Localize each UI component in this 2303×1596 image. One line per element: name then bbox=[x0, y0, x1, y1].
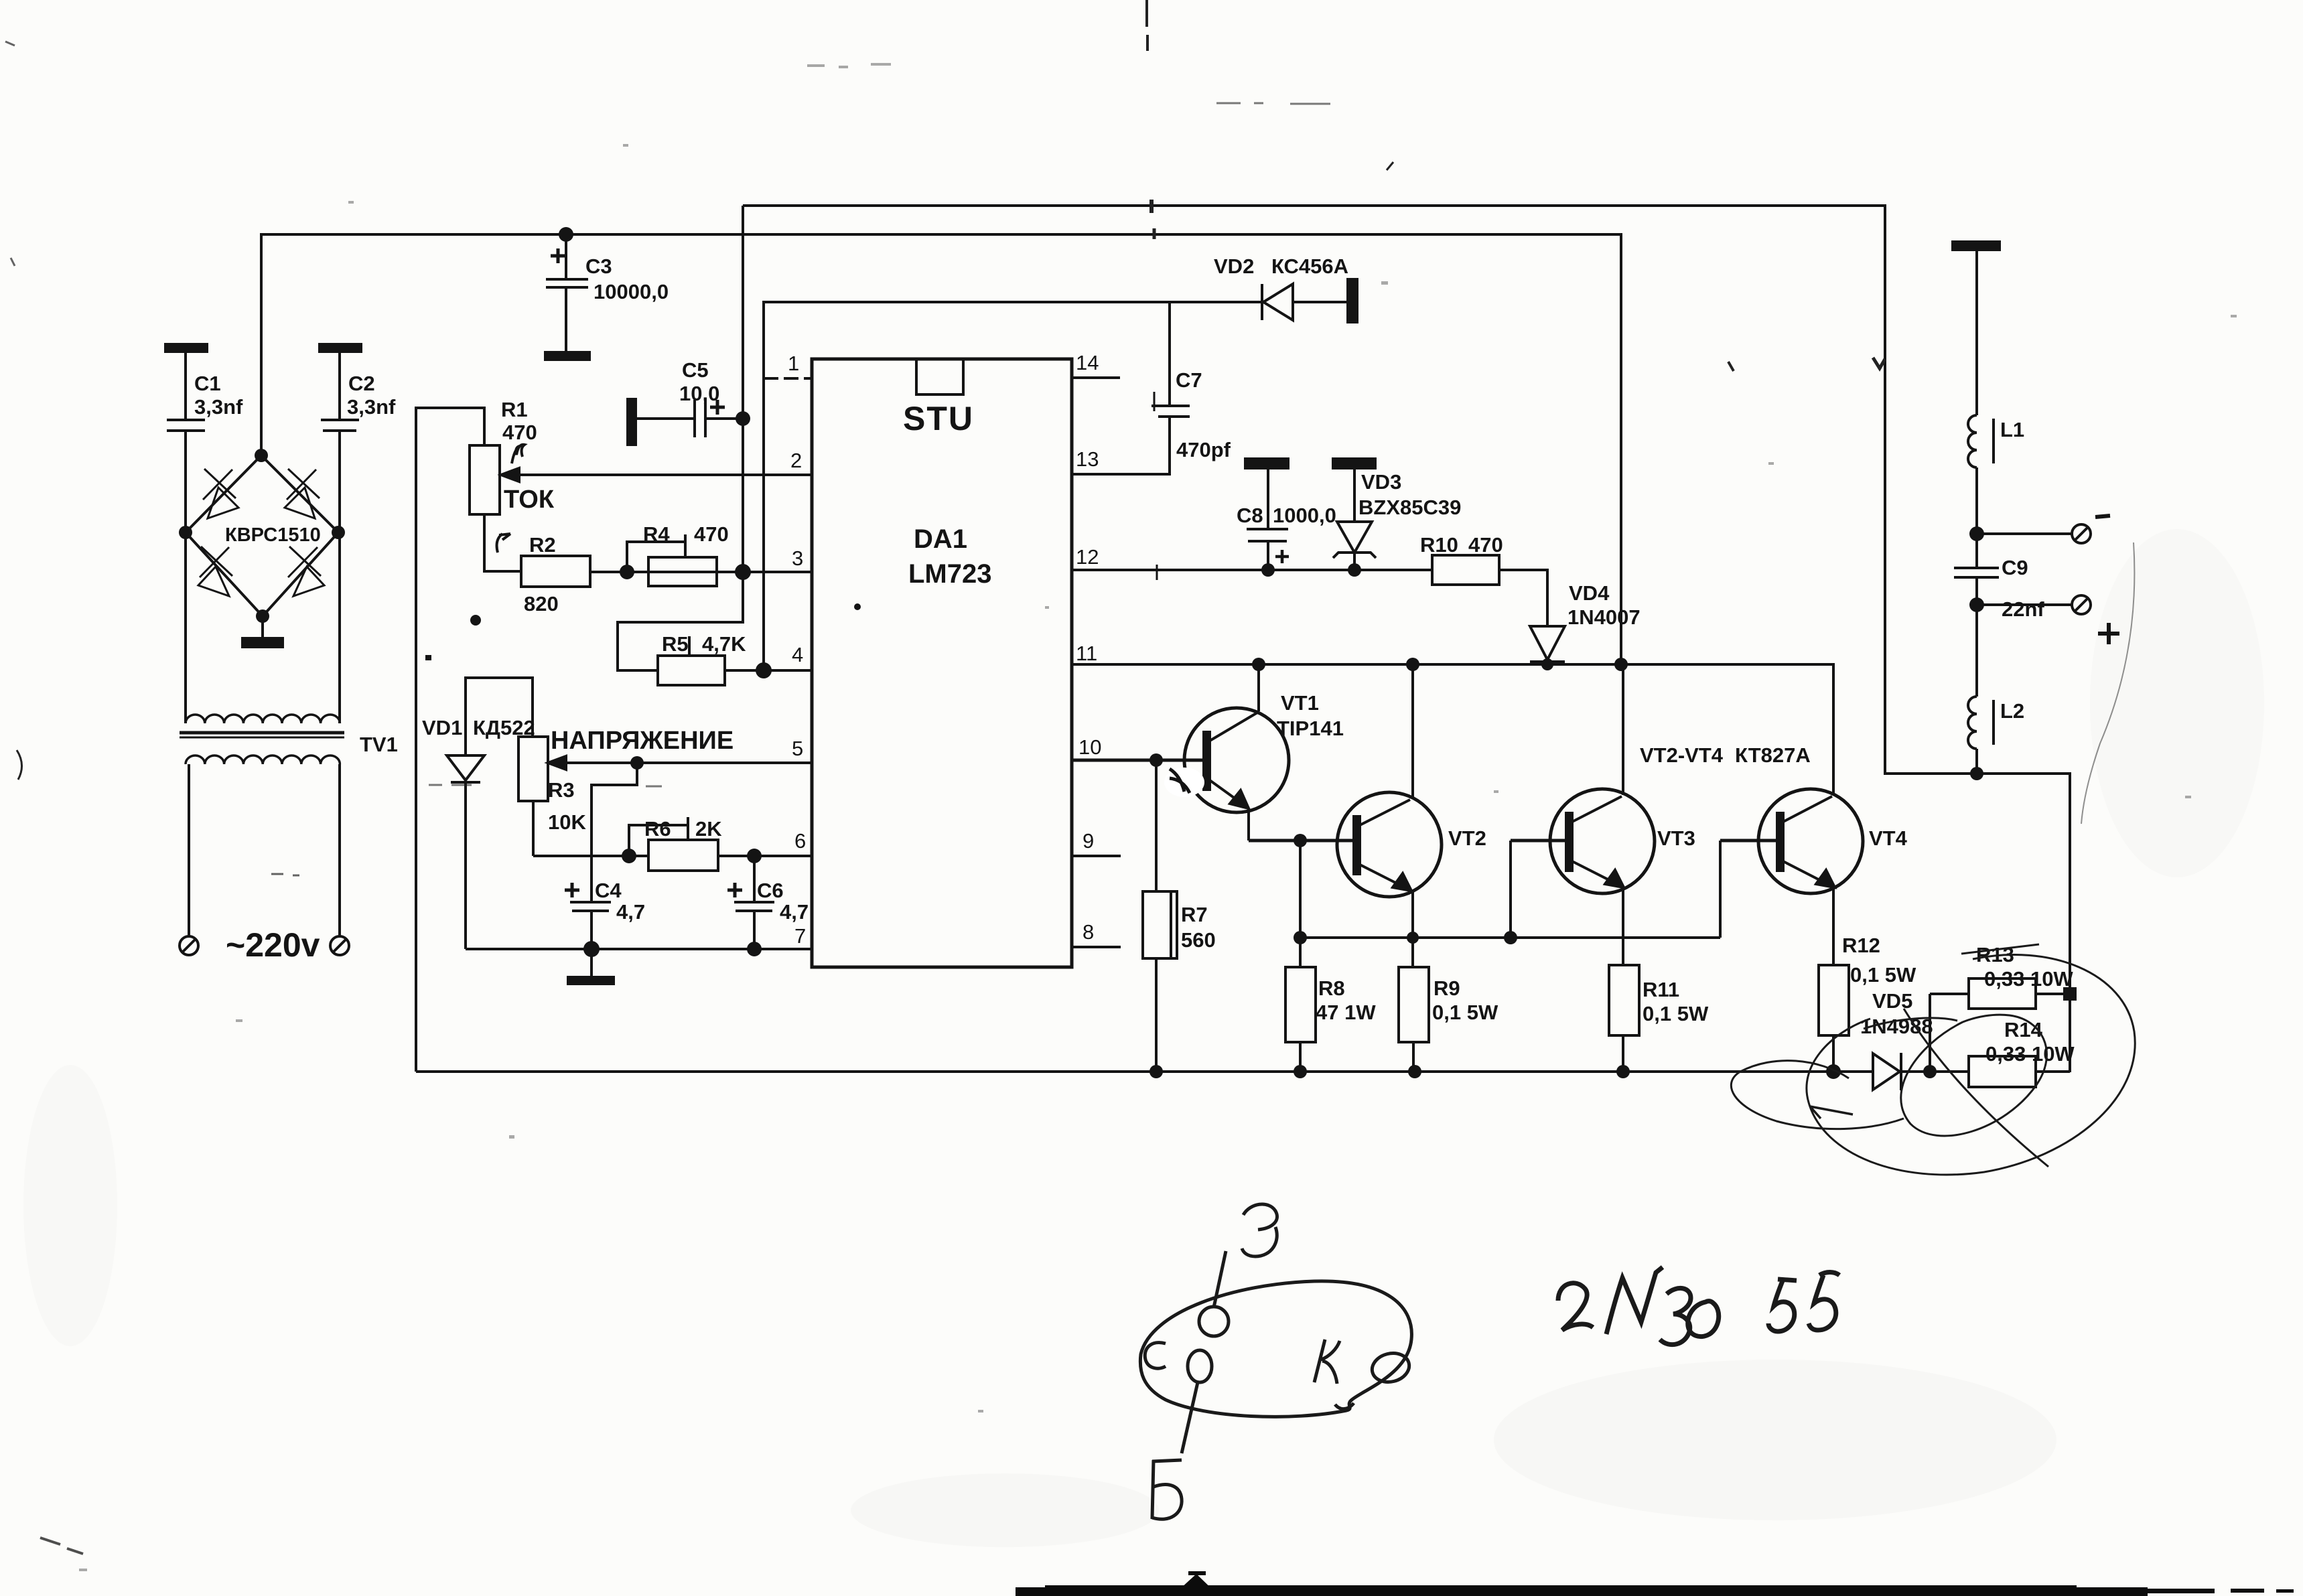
svg-text:C6: C6 bbox=[757, 879, 784, 902]
svg-text:0,1 5W: 0,1 5W bbox=[1850, 963, 1916, 987]
svg-text:VD3: VD3 bbox=[1361, 470, 1401, 494]
wire VD2 cathode to terminal bar bbox=[1293, 301, 1349, 303]
resistor R6 bbox=[644, 817, 722, 871]
wire R5 bypass loop bbox=[618, 572, 743, 670]
resistor R5 bbox=[658, 632, 746, 685]
wire VD1 top U loop to R3 top bbox=[466, 678, 533, 755]
svg-text:R8: R8 bbox=[1318, 976, 1345, 1000]
wire R6 label bracket bbox=[629, 825, 688, 856]
resistor R9 bbox=[1399, 967, 1498, 1072]
svg-text:0,1 5W: 0,1 5W bbox=[1643, 1002, 1709, 1025]
node R6 left bbox=[622, 849, 636, 863]
node R12 / VD5 anode bbox=[1826, 1064, 1841, 1079]
svg-text:НАПРЯЖЕНИЕ: НАПРЯЖЕНИЕ bbox=[551, 727, 734, 755]
wire from terminal to L1 bbox=[1975, 250, 1978, 415]
svg-text:4,7: 4,7 bbox=[616, 900, 645, 924]
svg-text:5: 5 bbox=[792, 737, 803, 760]
svg-text:2: 2 bbox=[790, 449, 802, 472]
svg-text:1N4007: 1N4007 bbox=[1567, 605, 1641, 629]
svg-text:LM723: LM723 bbox=[908, 559, 992, 589]
node pin 4 bbox=[756, 662, 772, 678]
diode VD2 (zener) bbox=[1214, 255, 1357, 322]
svg-text:R9: R9 bbox=[1434, 976, 1460, 1000]
pen loops around R13 R14 VD5 bbox=[1731, 944, 2135, 1175]
inductor L1 column top terminal bbox=[1953, 242, 2000, 250]
svg-text:10,0: 10,0 bbox=[679, 382, 719, 405]
svg-text:R5: R5 bbox=[662, 632, 689, 656]
svg-text:TIP141: TIP141 bbox=[1277, 717, 1344, 740]
wire VD1 cathode down bbox=[464, 782, 467, 949]
resistor R7 bbox=[1143, 760, 1216, 1072]
wire rail B from bridge to VT4 column bbox=[261, 234, 1621, 664]
svg-text:C3: C3 bbox=[585, 255, 612, 278]
wire C6 leads bbox=[753, 856, 756, 901]
op-amp regulator IC DA1 LM723 bbox=[812, 359, 1072, 967]
bridge rectifier KBPC1510 bbox=[186, 455, 338, 616]
svg-text:1: 1 bbox=[788, 352, 799, 375]
node C4 ground bbox=[583, 941, 600, 957]
potentiometer R3 bbox=[518, 737, 586, 834]
wire C4 bottom lead bbox=[590, 911, 593, 949]
svg-text:VD4: VD4 bbox=[1569, 581, 1610, 605]
capacitor C9 bbox=[1954, 556, 2044, 697]
node bridge right bbox=[332, 526, 345, 539]
svg-text:11: 11 bbox=[1076, 642, 1097, 665]
node output plus bbox=[1969, 597, 1984, 612]
node pin 3 bbox=[735, 564, 751, 580]
svg-text:820: 820 bbox=[524, 592, 559, 615]
svg-text:7: 7 bbox=[794, 924, 806, 948]
svg-text:R2: R2 bbox=[529, 533, 556, 557]
svg-text:6: 6 bbox=[794, 829, 806, 853]
wire pin 5 line from R3 wiper bbox=[549, 761, 812, 764]
svg-text:3,3nf: 3,3nf bbox=[194, 395, 243, 419]
handwritten 2N3055 bbox=[1558, 1267, 1839, 1345]
wire pin 4 line bbox=[725, 669, 812, 672]
svg-text:3: 3 bbox=[792, 547, 803, 570]
transformer TV1 bbox=[180, 532, 398, 936]
resistor R10 bbox=[1420, 533, 1503, 585]
svg-text:10K: 10K bbox=[548, 810, 586, 834]
svg-text:10: 10 bbox=[1078, 735, 1101, 759]
wire C4 ground stem bbox=[590, 949, 593, 977]
node bridge top bbox=[255, 449, 268, 462]
svg-text:C2: C2 bbox=[348, 372, 375, 395]
potentiometer R1 bbox=[470, 398, 537, 514]
svg-text:~220v: ~220v bbox=[226, 926, 320, 964]
capacitor C1 bbox=[165, 344, 243, 532]
node output minus bbox=[1969, 526, 1984, 541]
svg-text:КТ827А: КТ827А bbox=[1735, 743, 1811, 767]
handwritten transistor pinout sketch bbox=[1140, 1204, 1412, 1519]
capacitor C7 bbox=[1151, 302, 1231, 461]
svg-text:470: 470 bbox=[1468, 533, 1503, 557]
pin 1 stub bbox=[764, 352, 812, 378]
svg-text:C5: C5 bbox=[682, 358, 709, 382]
capacitor C3 bbox=[546, 234, 669, 352]
svg-text:9: 9 bbox=[1083, 829, 1094, 853]
svg-text:470pf: 470pf bbox=[1176, 438, 1231, 461]
capacitor C6 bbox=[727, 879, 809, 924]
wire R4 label bracket bbox=[627, 542, 685, 572]
node R8 bottom bbox=[1294, 1065, 1307, 1078]
output terminal plus bbox=[1977, 595, 2119, 644]
wire R1 top loop to left border bbox=[416, 408, 484, 1072]
node rail B drop bbox=[1614, 658, 1628, 671]
wire pin 13 line bbox=[1072, 418, 1170, 474]
node C5 / pin3 riser bbox=[736, 411, 750, 426]
node C6 bottom bbox=[747, 942, 762, 956]
node L2 bottom bbox=[1970, 767, 1983, 780]
wire L1 to minus node bbox=[1975, 467, 1978, 567]
node R7 bottom bbox=[1149, 1065, 1163, 1078]
wire pin 3 line bbox=[590, 571, 812, 573]
wire top rail A bbox=[743, 206, 2070, 1072]
svg-text:L1: L1 bbox=[2000, 418, 2024, 441]
node R11 bottom bbox=[1616, 1065, 1630, 1078]
resistor R11 bbox=[1609, 965, 1709, 1072]
svg-text:10000,0: 10000,0 bbox=[594, 280, 669, 303]
pin 9 stub bbox=[1072, 829, 1121, 856]
node R13-R14 left bbox=[1923, 1065, 1937, 1078]
correction white-out at VT1 base bbox=[1164, 768, 1204, 797]
node C6 top bbox=[747, 849, 762, 863]
capacitor C8 bbox=[1237, 459, 1336, 570]
wire R3 bottom to pin6 rail bbox=[532, 801, 535, 856]
svg-text:R12: R12 bbox=[1842, 934, 1880, 957]
wire VT1 emitter to VT2 base bbox=[1249, 839, 1355, 843]
svg-text:0,33 10W: 0,33 10W bbox=[1984, 967, 2073, 991]
bottom scan black bar bbox=[1016, 1571, 2294, 1596]
pen scribble above R1 wiper bbox=[512, 445, 525, 463]
node VT2 emitter cross bbox=[1407, 932, 1419, 944]
node R9 bottom bbox=[1408, 1065, 1421, 1078]
svg-text:R3: R3 bbox=[548, 778, 575, 802]
svg-text:4,7: 4,7 bbox=[780, 900, 809, 924]
node output / R13 right (square junction) bbox=[2063, 987, 2077, 1001]
node R2-R4 bbox=[620, 565, 634, 579]
svg-text:13: 13 bbox=[1076, 447, 1099, 471]
svg-text:R10: R10 bbox=[1420, 533, 1458, 557]
faint scan smudges bbox=[23, 529, 2264, 1547]
svg-text:R6: R6 bbox=[644, 817, 671, 841]
svg-text:22nf: 22nf bbox=[2002, 597, 2044, 621]
svg-text:C4: C4 bbox=[595, 879, 622, 902]
svg-text:VD1: VD1 bbox=[422, 716, 462, 739]
capacitor C4 bbox=[565, 879, 645, 924]
terminal 220v right bbox=[330, 936, 349, 955]
svg-text:47 1W: 47 1W bbox=[1316, 1001, 1376, 1024]
wire pin 7 ground rail bbox=[466, 948, 812, 950]
output terminal minus bbox=[1977, 516, 2110, 543]
wire R5 label tick bbox=[688, 636, 691, 656]
svg-text:C8: C8 bbox=[1237, 504, 1263, 527]
svg-text:VT1: VT1 bbox=[1281, 691, 1319, 715]
svg-text:R11: R11 bbox=[1643, 978, 1679, 1001]
svg-text:VD5: VD5 bbox=[1872, 989, 1912, 1013]
transistor VT1 bbox=[1072, 664, 1344, 841]
node VT2 collector bbox=[1406, 658, 1419, 671]
svg-text:VT3: VT3 bbox=[1657, 826, 1695, 850]
wire pin 6 rail bbox=[533, 855, 648, 857]
svg-text:VT4: VT4 bbox=[1869, 826, 1908, 850]
svg-text:STU: STU bbox=[903, 400, 974, 437]
node VT2 base / R8 bbox=[1294, 834, 1307, 847]
resistor R8 bbox=[1285, 967, 1376, 1072]
diode VD4 bbox=[1499, 570, 1641, 664]
svg-text:R7: R7 bbox=[1181, 903, 1208, 926]
svg-text:1000,0: 1000,0 bbox=[1273, 504, 1336, 527]
wire pin 12 rail bbox=[1072, 565, 1432, 580]
svg-text:0,33 10W: 0,33 10W bbox=[1985, 1042, 2075, 1066]
node VD4 cathode bbox=[1541, 658, 1553, 670]
svg-text:470: 470 bbox=[502, 421, 537, 444]
node C8 bottom bbox=[1261, 563, 1275, 577]
wire L2 to output rail bbox=[1975, 749, 1978, 774]
inductor L2 bbox=[1968, 697, 2024, 749]
wire C4 jog from pin5 node bbox=[591, 763, 637, 901]
wire R2 to R4 bbox=[590, 571, 648, 573]
svg-text:КС456А: КС456А bbox=[1271, 255, 1348, 278]
svg-text:VT2: VT2 bbox=[1448, 826, 1486, 850]
node C3 top on rail B bbox=[559, 227, 573, 242]
diode VD5 on bottom rail bbox=[1860, 989, 1933, 1090]
svg-text:0,1 5W: 0,1 5W bbox=[1432, 1001, 1498, 1024]
transistor VT4 bbox=[1720, 789, 1908, 965]
node pin10 / R7 bbox=[1149, 753, 1163, 767]
svg-text:3,3nf: 3,3nf bbox=[347, 395, 396, 419]
resistor R14 bbox=[1969, 1018, 2075, 1087]
node base bus / R8 bbox=[1294, 931, 1307, 944]
transistor VT3 bbox=[1511, 664, 1695, 965]
svg-text:DA1: DA1 bbox=[914, 524, 967, 554]
svg-text:C7: C7 bbox=[1176, 368, 1202, 392]
diode VD1 bbox=[422, 716, 535, 782]
resistor R12 bbox=[1819, 934, 1916, 1072]
node VD3 bottom bbox=[1348, 563, 1361, 577]
svg-text:R1: R1 bbox=[501, 398, 528, 421]
svg-text:560: 560 bbox=[1181, 928, 1216, 952]
node bridge left bbox=[179, 526, 192, 539]
node pin 5 / C4 tap bbox=[630, 756, 644, 770]
ground below C3 bbox=[545, 352, 589, 360]
svg-text:ТОК: ТОК bbox=[504, 486, 555, 514]
wire vertical from rail A to pin 3 bbox=[742, 206, 744, 572]
wire R1 bottom to R2 bbox=[484, 514, 521, 571]
resistor R2 bbox=[521, 533, 590, 615]
diode VD3 (zener) bbox=[1333, 459, 1461, 570]
wire rail C pin4 riser to VD2 bbox=[764, 302, 1262, 670]
svg-text:C1: C1 bbox=[194, 372, 221, 395]
capacitor C5 bbox=[628, 358, 743, 445]
svg-text:C9: C9 bbox=[2002, 556, 2028, 579]
node VT1 collector bbox=[1252, 658, 1265, 671]
svg-text:14: 14 bbox=[1076, 351, 1099, 374]
transistor VT2 bbox=[1337, 664, 1486, 967]
resistor R13 bbox=[1930, 943, 2073, 1072]
svg-text:VT2-VT4: VT2-VT4 bbox=[1640, 743, 1724, 767]
node base bus / VT3 bbox=[1504, 931, 1517, 944]
inductor L1 bbox=[1968, 415, 2024, 467]
svg-text:VD2: VD2 bbox=[1214, 255, 1254, 278]
capacitor C2 bbox=[320, 344, 396, 532]
svg-text:2K: 2K bbox=[695, 817, 722, 841]
ground below bridge bbox=[242, 616, 283, 647]
svg-text:8: 8 bbox=[1083, 920, 1094, 944]
svg-text:R4: R4 bbox=[643, 522, 670, 546]
wire bottom rail bbox=[416, 1070, 1873, 1073]
svg-text:TV1: TV1 bbox=[360, 733, 398, 756]
terminal 220v left bbox=[180, 936, 198, 955]
svg-text:BZX85C39: BZX85C39 bbox=[1358, 496, 1461, 519]
ground below C4 bbox=[568, 977, 614, 984]
pin 14 stub bbox=[1072, 351, 1120, 378]
svg-text:4: 4 bbox=[792, 643, 803, 666]
wire pin 11 rail bbox=[1072, 664, 1833, 794]
svg-text:12: 12 bbox=[1076, 545, 1099, 569]
resistor R4 bbox=[643, 522, 729, 586]
node bridge bottom bbox=[256, 609, 269, 623]
pin 8 stub bbox=[1072, 920, 1121, 947]
svg-text:4,7K: 4,7K bbox=[702, 632, 746, 656]
svg-text:470: 470 bbox=[694, 522, 729, 546]
wire pin 2 line from R1 wiper bbox=[502, 474, 812, 476]
trimmer arrow on R2 bbox=[497, 534, 510, 553]
svg-text:L2: L2 bbox=[2000, 699, 2024, 723]
svg-text:КВРС1510: КВРС1510 bbox=[225, 524, 321, 546]
wire VT bases parallel line bbox=[1299, 841, 1302, 967]
